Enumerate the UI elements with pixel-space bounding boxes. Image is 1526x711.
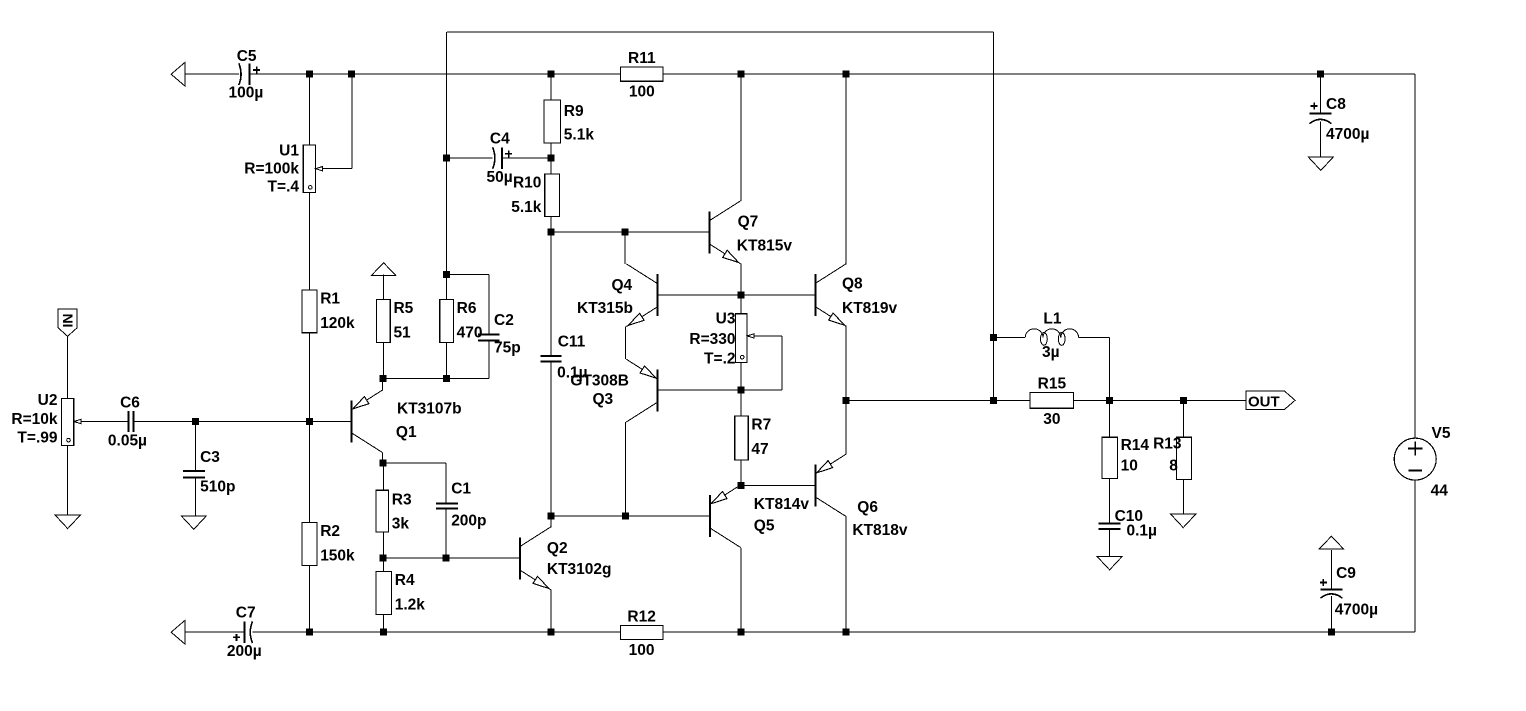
wire +V rail xyxy=(185,73,1415,75)
svg-text:KT3107b: KT3107b xyxy=(397,400,462,417)
capacitor C4 xyxy=(487,131,513,187)
svg-text:3µ: 3µ xyxy=(1042,344,1060,361)
svg-text:U1: U1 xyxy=(279,142,299,159)
wire R5-R6 bottom link xyxy=(383,341,489,378)
potentiometer U3 xyxy=(689,311,754,368)
svg-text:T=.2: T=.2 xyxy=(704,351,735,368)
wire C1 bottom xyxy=(445,509,447,559)
transistor Q5 KT814v xyxy=(710,485,810,548)
wire R7 to Q5/Q6 node xyxy=(740,460,742,486)
ground below U2 xyxy=(55,515,80,528)
wire R13 column xyxy=(1183,400,1185,514)
svg-text:R6: R6 xyxy=(457,300,477,317)
svg-text:100: 100 xyxy=(629,84,655,101)
wire C8 column xyxy=(1319,74,1321,157)
wire C11 column xyxy=(550,232,552,516)
svg-text:44: 44 xyxy=(1431,483,1449,500)
resistor R10 xyxy=(511,174,559,216)
wire L1 row xyxy=(994,338,1110,401)
svg-text:3k: 3k xyxy=(392,515,410,532)
wire Q4 collector riser xyxy=(624,232,626,264)
svg-text:Q2: Q2 xyxy=(547,540,568,557)
svg-text:C3: C3 xyxy=(200,449,220,466)
svg-text:0.1µ: 0.1µ xyxy=(1127,523,1157,540)
svg-text:30: 30 xyxy=(1043,411,1060,428)
svg-text:150k: 150k xyxy=(320,548,355,565)
capacitor C7 xyxy=(227,604,262,659)
wire U1 wiper to +V xyxy=(323,74,353,169)
ground below C8 xyxy=(1308,157,1333,170)
wire IN to U2 xyxy=(67,336,69,398)
wire U1 to R1 xyxy=(309,193,311,290)
svg-text:R11: R11 xyxy=(628,50,656,67)
transistor Q7 KT815v xyxy=(710,201,793,264)
svg-text:100µ: 100µ xyxy=(229,85,264,102)
transistor Q6 KT818v xyxy=(815,454,908,539)
svg-text:C2: C2 xyxy=(494,312,514,329)
ground below R13 xyxy=(1171,514,1196,527)
svg-text:R4: R4 xyxy=(395,572,415,589)
resistor R2 xyxy=(302,523,355,566)
resistor R1 xyxy=(302,290,355,333)
transistor Q2 KT3102g xyxy=(520,527,612,590)
potentiometer U1 xyxy=(244,142,322,195)
wire R2 to -V rail xyxy=(309,565,311,632)
wire Q8 collector to +V xyxy=(845,74,847,263)
svg-text:IN: IN xyxy=(60,314,76,328)
resistor R3 xyxy=(376,490,412,532)
svg-text:Q6: Q6 xyxy=(857,499,878,516)
wire Q5 collector to -V rail xyxy=(740,548,742,632)
resistor R6 xyxy=(440,300,483,343)
wire Q1 emitter riser xyxy=(382,378,384,390)
port OUT xyxy=(1246,391,1295,410)
capacitor C1 xyxy=(436,480,487,529)
potentiometer U2 xyxy=(11,392,81,447)
resistor R12 xyxy=(620,608,663,659)
svg-text:T=.99: T=.99 xyxy=(17,430,57,447)
svg-text:C5: C5 xyxy=(237,48,257,65)
svg-text:U3: U3 xyxy=(716,311,736,328)
wire R9 top xyxy=(550,74,552,100)
svg-text:100: 100 xyxy=(629,642,655,659)
wire R10 to Q7 base row xyxy=(551,216,710,232)
svg-text:R15: R15 xyxy=(1038,375,1067,392)
svg-text:R10: R10 xyxy=(513,175,541,192)
wire R5 power stem xyxy=(382,274,384,299)
wire U3 wiper loop xyxy=(754,336,782,390)
wire R3 to R4 and Q2 base xyxy=(383,532,520,572)
wire R14 column xyxy=(1109,400,1111,556)
junction nodes xyxy=(192,71,1335,636)
inductor L1 xyxy=(1025,311,1078,361)
svg-text:Q8: Q8 xyxy=(842,276,863,293)
svg-text:C1: C1 xyxy=(451,480,471,497)
svg-text:10: 10 xyxy=(1121,458,1138,475)
wire C4 row xyxy=(447,157,552,159)
svg-text:R2: R2 xyxy=(320,523,340,540)
capacitor C11 xyxy=(540,334,587,382)
svg-text:75p: 75p xyxy=(494,339,521,356)
svg-text:50µ: 50µ xyxy=(487,169,513,186)
svg-text:R13: R13 xyxy=(1153,436,1182,453)
svg-text:R14: R14 xyxy=(1121,437,1150,454)
wire C1 top link xyxy=(383,463,446,503)
svg-text:0.05µ: 0.05µ xyxy=(108,432,147,449)
svg-text:4700µ: 4700µ xyxy=(1335,602,1378,619)
svg-text:R3: R3 xyxy=(392,492,412,509)
wire Q4/Q8 base row xyxy=(657,294,815,296)
transistor Q1 KT3107b xyxy=(352,378,462,452)
svg-text:4700µ: 4700µ xyxy=(1326,126,1369,143)
svg-text:120k: 120k xyxy=(320,315,355,332)
svg-text:1.2k: 1.2k xyxy=(395,597,426,614)
wire Q4-Q3 emitter link xyxy=(625,327,627,360)
svg-text:47: 47 xyxy=(751,441,768,458)
svg-text:L1: L1 xyxy=(1043,311,1061,328)
wire U2 wiper to C6 xyxy=(81,421,128,423)
wire top bootstrap net xyxy=(447,32,994,400)
svg-text:C6: C6 xyxy=(120,395,140,412)
wire C3 column xyxy=(195,422,197,516)
svg-text:KT819v: KT819v xyxy=(842,300,898,317)
svg-text:C11: C11 xyxy=(558,334,586,351)
svg-text:R=10k: R=10k xyxy=(11,411,57,428)
wire R4 to -V rail xyxy=(382,614,384,632)
ground below C10 xyxy=(1097,557,1122,570)
wire C9 column xyxy=(1330,550,1332,632)
wire C6 to Q1 base xyxy=(134,421,352,423)
resistor R7 xyxy=(735,416,771,460)
wire Q8/Q6 emitters to output node xyxy=(845,326,847,454)
svg-text:C7: C7 xyxy=(236,604,256,621)
svg-text:C8: C8 xyxy=(1326,96,1346,113)
capacitor C9 xyxy=(1320,565,1378,619)
port IN xyxy=(58,309,77,336)
svg-text:V5: V5 xyxy=(1432,425,1451,442)
svg-text:KT315b: KT315b xyxy=(577,300,633,317)
svg-text:51: 51 xyxy=(393,325,411,342)
wire R9-C4-R10 node xyxy=(550,143,552,174)
wire Q6 base row xyxy=(741,485,815,487)
wire V5 branch xyxy=(1414,74,1416,632)
transistor Q8 KT819v xyxy=(815,264,897,327)
power arrow above C9 xyxy=(1319,536,1343,549)
wire -V rail xyxy=(185,631,1415,633)
svg-text:5.1k: 5.1k xyxy=(564,126,595,143)
wire R1 to R2 through input node xyxy=(309,333,311,523)
wire Q7 emitter to base node xyxy=(740,264,742,296)
power arrow above R5 xyxy=(372,263,396,276)
svg-text:8: 8 xyxy=(1169,458,1178,475)
capacitor C5 xyxy=(229,48,264,102)
svg-text:R=330: R=330 xyxy=(689,331,735,348)
capacitor C2 xyxy=(478,312,521,356)
svg-text:GT308B: GT308B xyxy=(570,373,629,390)
svg-text:R12: R12 xyxy=(627,608,655,625)
svg-text:200µ: 200µ xyxy=(227,643,262,660)
svg-text:KT814v: KT814v xyxy=(754,496,810,513)
svg-text:U2: U2 xyxy=(38,392,58,409)
wire U3 bottom to R7 xyxy=(740,362,742,416)
wire R5 to emitter node xyxy=(382,342,384,378)
svg-text:Q1: Q1 xyxy=(396,424,417,441)
wire Q2 emitter to -V rail xyxy=(550,589,552,632)
svg-text:KT3102g: KT3102g xyxy=(547,561,612,578)
resistor R14 xyxy=(1102,437,1149,478)
resistor R13 xyxy=(1153,436,1192,480)
wire Q2 collector riser xyxy=(550,516,552,527)
svg-text:T=.4: T=.4 xyxy=(268,179,300,196)
svg-text:R1: R1 xyxy=(320,291,340,308)
wire C2 top link xyxy=(447,274,489,334)
wire Q3 collector down xyxy=(625,422,627,516)
capacitor C10 xyxy=(1099,508,1157,540)
svg-text:470: 470 xyxy=(457,325,483,342)
svg-text:KT818v: KT818v xyxy=(852,522,908,539)
capacitor C8 xyxy=(1309,96,1369,143)
svg-text:Q3: Q3 xyxy=(593,391,614,408)
transistor Q3 GT308B xyxy=(570,359,657,422)
svg-text:C4: C4 xyxy=(490,131,510,148)
resistor R9 xyxy=(544,100,594,143)
svg-text:OUT: OUT xyxy=(1248,393,1280,410)
resistor R11 xyxy=(621,50,664,101)
svg-text:R7: R7 xyxy=(751,417,771,434)
+V rail arrow xyxy=(171,62,185,86)
wire base node to U3 xyxy=(740,295,742,314)
svg-text:510p: 510p xyxy=(200,479,235,496)
wire C5 node to U1 xyxy=(309,74,311,145)
wire output row xyxy=(846,399,1246,401)
wire Q6 collector to -V rail xyxy=(845,517,847,633)
svg-text:KT815v: KT815v xyxy=(737,238,793,255)
capacitor C3 xyxy=(183,449,235,496)
ground below C3 xyxy=(181,516,206,529)
resistor R4 xyxy=(376,572,425,615)
capacitor C6 xyxy=(108,395,147,450)
wire Q1 collector to R3 xyxy=(382,453,385,491)
svg-text:Q5: Q5 xyxy=(754,518,775,535)
svg-text:R=100k: R=100k xyxy=(244,161,299,178)
svg-text:Q7: Q7 xyxy=(738,213,759,230)
svg-text:R9: R9 xyxy=(564,103,584,120)
wire Q3 base to U3 bottom node xyxy=(657,389,782,391)
resistor R15 xyxy=(1030,375,1073,428)
wire U2 to ground xyxy=(67,445,69,515)
wire Q7 collector to +V xyxy=(740,74,742,201)
svg-text:C9: C9 xyxy=(1336,565,1356,582)
svg-text:Q4: Q4 xyxy=(612,277,633,294)
svg-text:200p: 200p xyxy=(451,513,486,530)
voltage source V5 xyxy=(1394,425,1451,500)
-V rail arrow xyxy=(171,620,185,644)
svg-text:R5: R5 xyxy=(393,300,413,317)
wire Q5 base row xyxy=(551,515,710,517)
transistor Q4 KT315b xyxy=(577,264,657,327)
svg-text:5.1k: 5.1k xyxy=(511,199,542,216)
resistor R5 xyxy=(377,300,414,343)
